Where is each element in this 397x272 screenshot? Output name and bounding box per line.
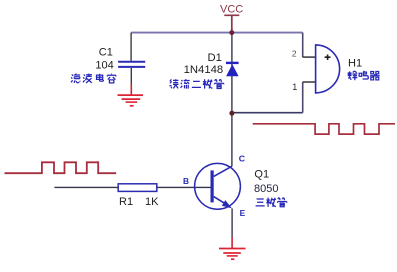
- ji: [266, 198, 276, 207]
- san: [256, 199, 265, 206]
- svg-text:1N4148: 1N4148: [184, 64, 224, 76]
- wire rail drop to buzzer pin 2: [302, 33, 304, 58]
- svg-text:C1: C1: [99, 47, 113, 59]
- svg-text:VCC: VCC: [220, 4, 243, 16]
- lv: [71, 74, 80, 83]
- wire VCC rail (net VCC): [131, 32, 303, 34]
- label H1 description "buzzer" (hand-drawn CJK): [348, 71, 380, 80]
- label Q1 description "transistor" (hand-drawn CJK): [256, 198, 287, 207]
- svg-text:2: 2: [292, 49, 297, 59]
- bo: [83, 74, 92, 83]
- feng: [348, 71, 357, 80]
- rong: [107, 74, 116, 83]
- guan: [215, 79, 224, 88]
- svg-text:R1: R1: [119, 196, 133, 208]
- wire main vertical (VCC node to collector): [231, 33, 233, 167]
- svg-text:B: B: [183, 176, 189, 186]
- ground for C1: [118, 95, 144, 106]
- xu: [169, 79, 178, 88]
- input waveform annotation (left): [5, 162, 117, 173]
- wire collector node to buzzer pin 1 branch: [232, 112, 303, 114]
- ji: [203, 79, 213, 88]
- wire emitter to ground: [231, 208, 233, 248]
- er: [192, 81, 201, 87]
- buzzer H1: [303, 45, 340, 93]
- junction VCC node: [229, 30, 234, 35]
- ground for Q1 emitter: [219, 249, 246, 260]
- liu: [181, 79, 190, 89]
- qi: [370, 72, 380, 80]
- power symbol VCC: [220, 4, 243, 33]
- svg-text:E: E: [240, 208, 246, 218]
- wire buzzer pin 1 drop: [302, 82, 304, 113]
- label D1 description "freewheeling diode" (hand-drawn CJK): [169, 79, 223, 89]
- svg-text:H1: H1: [348, 57, 362, 69]
- svg-text:D1: D1: [208, 52, 222, 64]
- output waveform annotation (right): [253, 124, 395, 134]
- dian: [97, 74, 104, 81]
- wire resistor to base: [157, 186, 211, 188]
- wire input to resistor R1: [54, 186, 118, 188]
- svg-text:C: C: [239, 154, 246, 164]
- junction collector node: [229, 111, 234, 116]
- svg-text:Q1: Q1: [254, 169, 269, 181]
- capacitor C1: [118, 33, 145, 95]
- svg-text:8050: 8050: [254, 183, 278, 195]
- resistor R1: [118, 184, 157, 192]
- diode D1: [226, 63, 239, 76]
- svg-text:1: 1: [292, 82, 297, 92]
- svg-text:104: 104: [95, 60, 113, 72]
- svg-text:1K: 1K: [145, 196, 159, 208]
- ming: [359, 71, 368, 79]
- transistor Q1: [195, 163, 241, 209]
- guan: [278, 198, 287, 207]
- label C1 description "filter capacitor" (hand-drawn CJK): [71, 74, 116, 84]
